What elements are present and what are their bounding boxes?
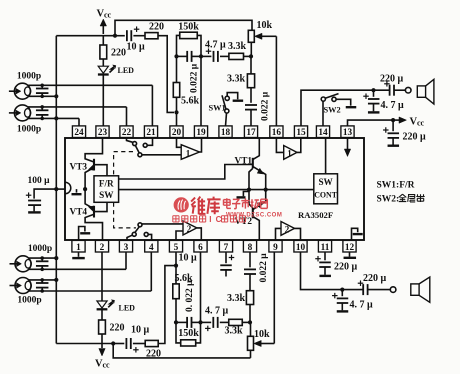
capacitor 10u (top feed) bbox=[115, 26, 145, 52]
wire bottom return rail bbox=[113, 344, 250, 358]
svg-text:1000p: 1000p bbox=[17, 296, 41, 306]
pin 9 bbox=[269, 240, 282, 252]
node pin17 top junction bbox=[249, 54, 253, 58]
svg-text:1000p: 1000p bbox=[28, 244, 52, 254]
svg-text:5: 5 bbox=[174, 243, 179, 253]
transistor VT4 bbox=[70, 189, 108, 240]
wire pin16 to amp A1R bbox=[276, 138, 283, 153]
node VT3/VT4 emitters bbox=[83, 187, 87, 191]
wire amp A2L out to pin6 bbox=[197, 228, 202, 241]
svg-text:SW2: SW2 bbox=[324, 105, 341, 114]
pin 14 bbox=[316, 126, 329, 138]
ground T-bar (VT bias) bbox=[237, 192, 250, 198]
svg-text:SW: SW bbox=[99, 190, 114, 200]
pin 16 bbox=[270, 126, 283, 138]
svg-text:21: 21 bbox=[146, 128, 156, 138]
svg-text:cc: cc bbox=[104, 11, 112, 20]
svg-text:10k: 10k bbox=[254, 329, 270, 340]
wire dashed link (F/R to switches) bbox=[114, 152, 136, 228]
svg-text:4. 7 μ: 4. 7 μ bbox=[205, 306, 229, 317]
svg-text:0.022 μ: 0.022 μ bbox=[259, 253, 269, 283]
ground pin1 external bbox=[72, 252, 85, 258]
svg-text:17: 17 bbox=[246, 128, 256, 138]
svg-text:1: 1 bbox=[76, 243, 81, 253]
svg-text:F/R: F/R bbox=[99, 179, 114, 189]
switch S-int-top (rec/play select) bbox=[127, 138, 153, 157]
node pin20 junction bbox=[174, 110, 178, 114]
wire pin5 to amp A2L bbox=[176, 231, 183, 240]
svg-text:8: 8 bbox=[248, 243, 253, 253]
pin 6 bbox=[194, 240, 207, 252]
svg-text:2: 2 bbox=[100, 243, 105, 253]
capacitor 4.7u (bottom speaker) bbox=[332, 290, 373, 312]
svg-text:6: 6 bbox=[198, 243, 203, 253]
wire pin5 stub bbox=[175, 252, 177, 266]
node pin6 bottom chain bbox=[198, 320, 202, 324]
wire top feed to 10k pot bbox=[115, 20, 252, 35]
svg-text:10 μ: 10 μ bbox=[127, 42, 146, 53]
resistor 150k (bottom) bbox=[176, 322, 201, 346]
svg-text:cc: cc bbox=[417, 119, 425, 128]
svg-text:4.7 μ: 4.7 μ bbox=[205, 40, 226, 51]
wire pin21 riser bbox=[151, 85, 153, 126]
speaker SP1 (top) bbox=[417, 79, 434, 104]
svg-text:11: 11 bbox=[321, 243, 330, 253]
svg-text:220: 220 bbox=[149, 22, 164, 33]
transistor VT2 bbox=[235, 190, 266, 240]
wire pin24 riser bbox=[78, 118, 80, 126]
svg-text:220: 220 bbox=[111, 48, 126, 59]
resistor 3.3k (bottom chain horizontal) bbox=[225, 319, 251, 336]
svg-text:220 μ: 220 μ bbox=[334, 262, 358, 273]
node VT emitter rail bbox=[264, 188, 268, 192]
pin 21 bbox=[144, 126, 157, 138]
pin 10 bbox=[294, 240, 307, 252]
svg-text:2: 2 bbox=[187, 224, 192, 234]
capacitor 4.7u (top chain) bbox=[201, 40, 229, 62]
resistor 3.3k (top chain horizontal) bbox=[228, 41, 251, 60]
svg-text:1000p: 1000p bbox=[17, 72, 41, 82]
resistor 3.3k (pin8 vertical) bbox=[227, 291, 254, 323]
svg-text:5.6k: 5.6k bbox=[181, 96, 200, 107]
box F/R SW bbox=[94, 176, 119, 203]
capacitor 10u (pin7) bbox=[179, 252, 235, 277]
svg-text:1000p: 1000p bbox=[17, 125, 41, 135]
svg-text:16: 16 bbox=[272, 128, 282, 138]
node speaker junction (bottom) bbox=[340, 288, 344, 292]
amp A2L (bottom preamp) bbox=[183, 221, 197, 235]
svg-text:RA3502F: RA3502F bbox=[298, 210, 333, 220]
wire pin20 to amp A1 bbox=[177, 138, 182, 148]
wire pot to pin16 bbox=[275, 36, 277, 126]
amp A1R (top power amp) bbox=[284, 146, 297, 160]
node pin5 bottom chain bbox=[174, 320, 178, 324]
pin 24 bbox=[72, 126, 85, 138]
node 100u / IC notch bbox=[54, 187, 58, 191]
svg-text:2: 2 bbox=[285, 224, 290, 234]
svg-text:SW: SW bbox=[318, 177, 333, 187]
node head B1 common bbox=[54, 94, 58, 98]
resistor 150k (top) bbox=[177, 21, 202, 56]
pin 22 bbox=[120, 126, 133, 138]
wire amp A2R out to pin10 bbox=[295, 228, 301, 240]
resistor 220 (top feed) bbox=[145, 22, 164, 39]
tape head B3 (bottom channel) bbox=[10, 256, 127, 272]
wire F/R line B to SW CONT bbox=[119, 189, 314, 191]
resistor 5.6k (top) bbox=[173, 56, 199, 112]
transistor VT1 bbox=[235, 138, 266, 190]
wire switch common to amp A2L input bbox=[142, 223, 183, 225]
pin 12 bbox=[343, 240, 356, 252]
wire amp A1R out to pin15 bbox=[297, 138, 301, 153]
svg-text:7: 7 bbox=[224, 243, 229, 253]
svg-text:20: 20 bbox=[172, 128, 182, 138]
svg-text:SW1:F/R: SW1:F/R bbox=[377, 181, 415, 191]
svg-text:100 μ: 100 μ bbox=[28, 176, 51, 186]
svg-text:cc: cc bbox=[103, 361, 111, 370]
tape head B1 (top channel) bbox=[9, 72, 153, 100]
svg-text:13: 13 bbox=[343, 128, 353, 138]
wire pot wiper to pin9 bbox=[273, 252, 275, 344]
svg-text:CONT: CONT bbox=[314, 190, 338, 199]
svg-text:4: 4 bbox=[149, 243, 154, 253]
wire head common vertical (left bus) bbox=[55, 36, 57, 344]
LED D2 (bottom) bbox=[97, 252, 136, 320]
pin 5 bbox=[169, 240, 182, 252]
svg-text:1: 1 bbox=[287, 149, 292, 159]
wire F/R line A bbox=[119, 165, 253, 180]
IC U1 RA3502F body bbox=[65, 138, 364, 240]
svg-text:I C: I C bbox=[209, 215, 222, 224]
svg-text:19: 19 bbox=[196, 128, 206, 138]
capacitor 220u (top speaker coupling) bbox=[374, 74, 406, 96]
amp A1 (top-left preamp) bbox=[181, 145, 199, 160]
wire pin9 to amp A2R bbox=[276, 228, 282, 240]
svg-text:3.3k: 3.3k bbox=[227, 74, 246, 85]
pin 11 bbox=[318, 240, 331, 252]
svg-text:VT4: VT4 bbox=[70, 208, 88, 218]
svg-text:3.3k: 3.3k bbox=[225, 326, 244, 337]
resistor 220 (LED, top) bbox=[100, 36, 126, 59]
svg-text:220 μ: 220 μ bbox=[380, 74, 404, 85]
pin 1 bbox=[72, 240, 85, 252]
Vcc supply arrow (bottom) bbox=[95, 344, 110, 370]
capacitor 1000p (head B2) bbox=[36, 105, 49, 120]
watermark dzsc logo bbox=[174, 197, 189, 212]
capacitor 0.022u (top, pins 20-19) bbox=[177, 51, 202, 93]
pin 2 bbox=[95, 240, 108, 252]
ground T-bar (notch bias) bbox=[72, 189, 82, 194]
wire pin6 stub bbox=[200, 252, 202, 322]
svg-text:24: 24 bbox=[74, 128, 84, 138]
wire Vcc node horizontal (top) bbox=[56, 35, 115, 37]
pin 23 bbox=[96, 126, 109, 138]
svg-text:220: 220 bbox=[110, 323, 125, 334]
svg-text:3.3k: 3.3k bbox=[228, 41, 247, 52]
svg-text:220: 220 bbox=[146, 349, 161, 360]
wire SW CONT to pin14 bbox=[325, 138, 327, 174]
capacitor 4.7u (bottom chain) bbox=[201, 306, 229, 332]
capacitor 4.7u (top speaker) bbox=[363, 90, 404, 112]
resistor 220 (LED, bottom) bbox=[99, 320, 125, 344]
node pin5 junction bbox=[174, 264, 178, 268]
svg-text:3: 3 bbox=[124, 243, 129, 253]
node pin8 bottom junction bbox=[248, 320, 252, 324]
svg-text:150k: 150k bbox=[178, 328, 199, 339]
amp A2R (bottom power amp) bbox=[281, 222, 295, 236]
pin 13 bbox=[341, 126, 354, 138]
capacitor 220u (bottom speaker coupling) bbox=[342, 273, 390, 295]
wire bottom rail bbox=[56, 343, 113, 345]
pin 3 bbox=[119, 240, 132, 252]
wire amp A1 out to pin19 bbox=[200, 138, 202, 153]
capacitor 100u (left bias) bbox=[26, 176, 56, 212]
potentiometer 10k (bottom) bbox=[248, 322, 275, 358]
svg-text:12: 12 bbox=[345, 243, 355, 253]
wire 220 feed to pin5 node bbox=[158, 266, 174, 344]
svg-text:10: 10 bbox=[296, 243, 306, 253]
svg-text:0.022 μ: 0.022 μ bbox=[260, 91, 270, 121]
wire pin15 output to speaker node bbox=[301, 90, 374, 126]
pin 17 bbox=[244, 126, 257, 138]
node bottom rail branch bbox=[111, 341, 115, 345]
watermark weiku text bbox=[173, 197, 283, 225]
pin 4 bbox=[145, 240, 158, 252]
svg-text:9: 9 bbox=[273, 243, 278, 253]
capacitor 0.022u (pin8) bbox=[244, 252, 269, 291]
tape head B4 (bottom channel) bbox=[10, 278, 152, 306]
ground T-bar (pin1 internal) bbox=[79, 227, 91, 241]
wire switch common to amp A1 input bbox=[142, 154, 181, 156]
pin 15 bbox=[294, 126, 307, 138]
svg-text:220 μ: 220 μ bbox=[403, 132, 427, 143]
resistor 3.3k (pin17 vertical) bbox=[227, 56, 255, 102]
capacitor 1000p (head B1) bbox=[36, 84, 49, 99]
svg-text:LED: LED bbox=[119, 304, 136, 313]
potentiometer 10k (top) bbox=[248, 20, 276, 56]
node speaker junction (top) bbox=[371, 88, 375, 92]
wire pin20 stub bbox=[176, 112, 178, 126]
svg-text:0.022 μ: 0.022 μ bbox=[190, 63, 200, 93]
pin 8 bbox=[243, 240, 256, 252]
wire pin13 to Vcc (right) bbox=[348, 120, 394, 126]
transistor VT3 bbox=[70, 138, 108, 190]
node Vcc/10u junction bbox=[113, 34, 117, 38]
switch S-int-bottom (rec/play select) bbox=[127, 223, 152, 241]
wire pin22 riser bbox=[126, 107, 128, 126]
wire pin10 to speaker node (bottom) bbox=[301, 252, 343, 290]
capacitor 0.022u (bottom, pins 5-6) bbox=[176, 280, 201, 328]
svg-text:VT3: VT3 bbox=[70, 163, 88, 173]
svg-text:LED: LED bbox=[118, 66, 135, 75]
svg-text:SW2:: SW2: bbox=[377, 195, 400, 205]
capacitor 220u (pin11) bbox=[315, 252, 357, 276]
node head B2 common bbox=[54, 116, 58, 120]
ground pin12 external bbox=[344, 252, 357, 258]
terminal circle (bottom speaker) bbox=[390, 287, 396, 293]
wire pin4 riser bbox=[150, 252, 152, 291]
svg-text:3.3k: 3.3k bbox=[227, 293, 246, 304]
svg-text:22: 22 bbox=[122, 128, 132, 138]
node Vcc right bbox=[391, 118, 395, 122]
svg-text:1: 1 bbox=[186, 148, 191, 158]
wire pin19 stub bbox=[200, 56, 202, 126]
capacitor 220u (pin13 decoupling) bbox=[383, 120, 426, 146]
resistor 220 (bottom feed) bbox=[145, 340, 161, 359]
node pin20 top chain bbox=[174, 54, 178, 58]
switch SW2 bbox=[321, 94, 356, 126]
wire pin3 riser bbox=[125, 252, 127, 269]
terminal circle (top speaker) bbox=[405, 87, 411, 93]
capacitor 0.022u (pin17) bbox=[245, 91, 270, 126]
svg-text:18: 18 bbox=[221, 128, 231, 138]
Vcc arrow (right) bbox=[393, 117, 424, 128]
pin 19 bbox=[194, 126, 207, 138]
capacitor 10u (bottom feed) bbox=[113, 325, 149, 353]
svg-text:14: 14 bbox=[318, 128, 328, 138]
svg-text:23: 23 bbox=[98, 128, 108, 138]
wire 100u node to IC edge bbox=[56, 188, 65, 190]
node VT base rail bbox=[247, 188, 251, 192]
box SW CONT bbox=[314, 174, 338, 204]
svg-text:4. 7 μ: 4. 7 μ bbox=[350, 300, 374, 311]
capacitor 1000p (head B4) bbox=[36, 278, 49, 293]
svg-text:150k: 150k bbox=[178, 21, 199, 32]
svg-text:0. 022 μ: 0. 022 μ bbox=[185, 280, 195, 312]
tape head B2 (top channel) bbox=[9, 105, 127, 135]
svg-text:SW1: SW1 bbox=[209, 104, 226, 113]
node head B4 common bbox=[54, 278, 58, 282]
svg-text:10 μ: 10 μ bbox=[131, 325, 150, 336]
wire 220 feed to pin20 node bbox=[158, 36, 174, 113]
node pin19 top chain bbox=[199, 54, 203, 58]
svg-text:15: 15 bbox=[296, 128, 306, 138]
svg-text:220 μ: 220 μ bbox=[363, 273, 387, 284]
resistor 5.6k (bottom) bbox=[173, 266, 193, 323]
ground T-bar (pin12 internal) bbox=[352, 228, 363, 240]
switch SW1 bbox=[209, 93, 244, 126]
node head B3 common bbox=[54, 256, 58, 260]
pin 18 bbox=[219, 126, 232, 138]
svg-text:10k: 10k bbox=[257, 20, 273, 31]
svg-text:10 μ: 10 μ bbox=[179, 253, 198, 264]
LED D1 (top) bbox=[98, 59, 134, 126]
pin 7 bbox=[219, 240, 232, 252]
Vcc supply arrow (top) bbox=[97, 9, 112, 35]
svg-text:VT1: VT1 bbox=[235, 157, 253, 167]
pin 20 bbox=[170, 126, 183, 138]
speaker SP2 (bottom) bbox=[411, 277, 430, 302]
svg-text:4. 7 μ: 4. 7 μ bbox=[381, 100, 405, 111]
arrow pin13 internal bbox=[344, 138, 350, 157]
capacitor 1000p (head B3) bbox=[36, 256, 49, 271]
